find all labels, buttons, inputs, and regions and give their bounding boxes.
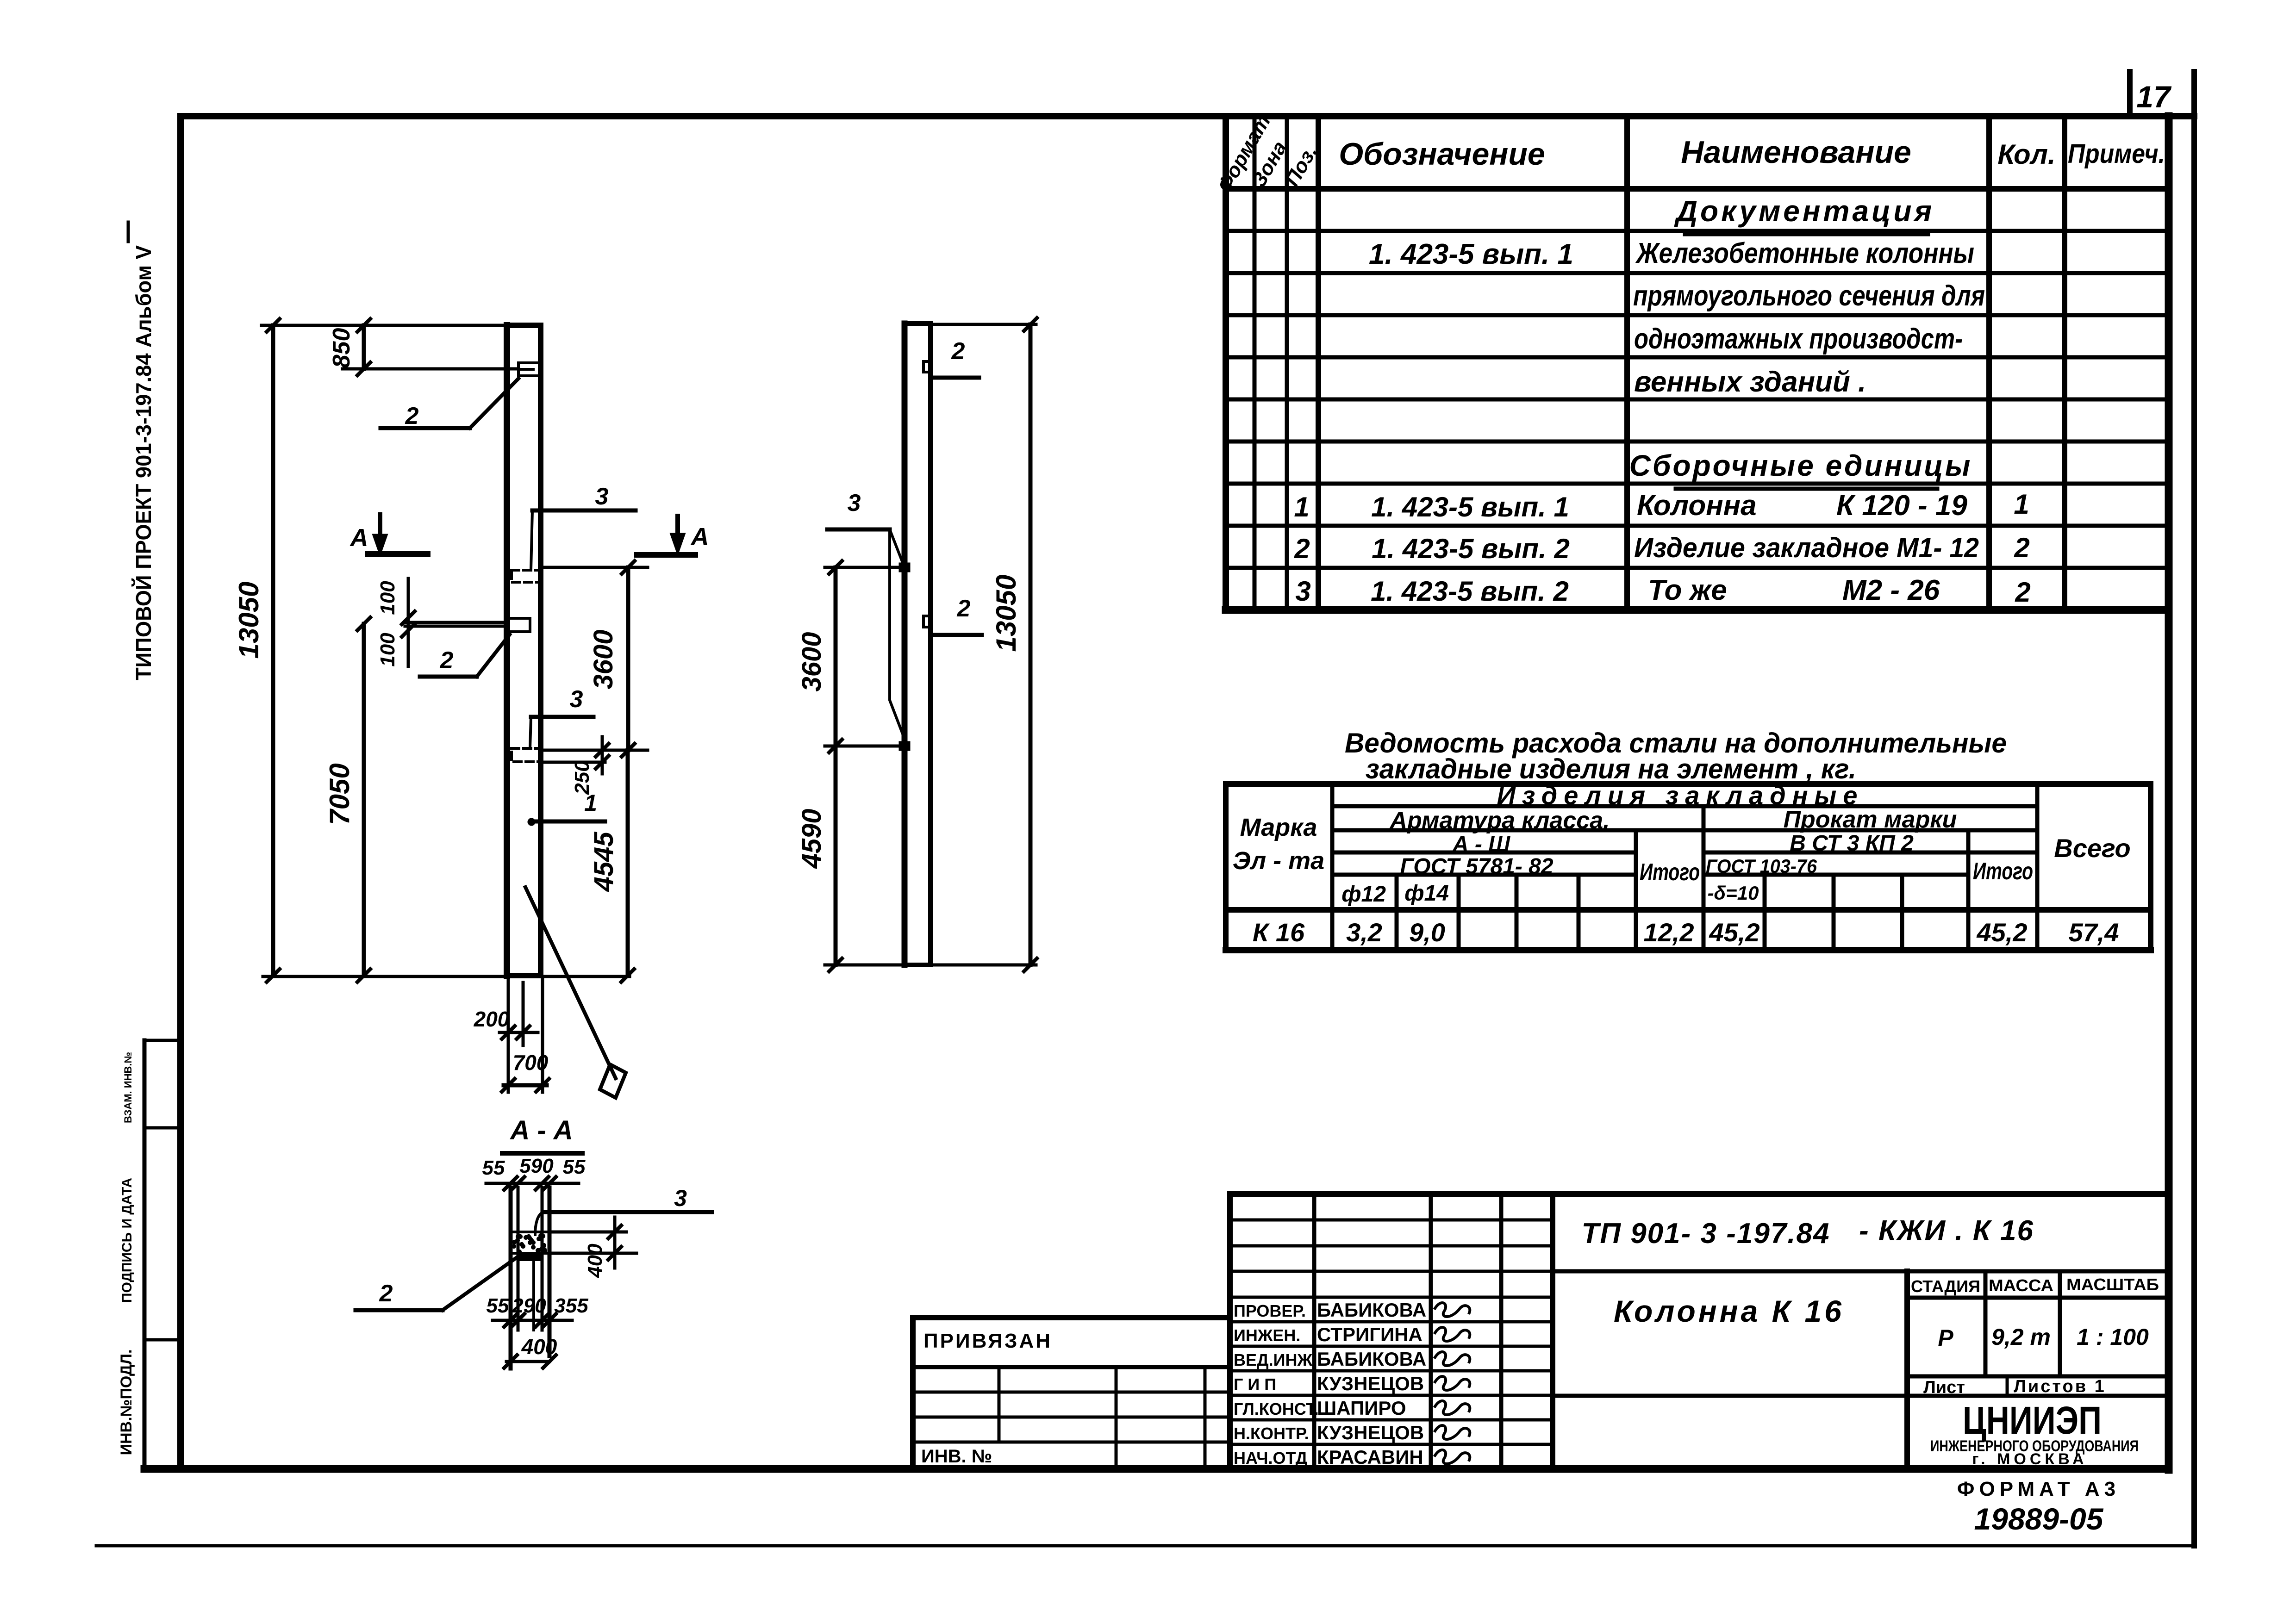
svg-text:Изделие закладное М1- 12: Изделие закладное М1- 12: [1634, 532, 1979, 563]
svg-text:45,2: 45,2: [1709, 918, 1760, 947]
svg-text:Эл - та: Эл - та: [1233, 847, 1324, 875]
svg-text:1. 423-5 вып. 2: 1. 423-5 вып. 2: [1372, 533, 1570, 564]
svg-text:Обозначение: Обозначение: [1339, 137, 1545, 172]
svg-text:Прокат марки: Прокат марки: [1784, 806, 1957, 833]
svg-text:БАБИКОВА: БАБИКОВА: [1317, 1348, 1426, 1370]
svg-text:850: 850: [328, 328, 355, 368]
svg-text:прямоугольного сечения для: прямоугольного сечения для: [1633, 280, 1985, 312]
svg-text:2: 2: [1294, 533, 1310, 564]
svg-text:700: 700: [513, 1051, 549, 1075]
svg-text:1: 1: [1294, 491, 1309, 522]
svg-text:К 120 - 19: К 120 - 19: [1836, 490, 1967, 522]
svg-text:Колонна К 16: Колонна К 16: [1614, 1294, 1844, 1328]
svg-text:13050: 13050: [991, 575, 1022, 652]
svg-text:9,0: 9,0: [1409, 918, 1445, 947]
svg-text:3: 3: [595, 483, 609, 510]
svg-text:2: 2: [440, 647, 454, 674]
svg-text:одноэтажных производст-: одноэтажных производст-: [1634, 323, 1963, 355]
svg-text:ФОРМАТ А3: ФОРМАТ А3: [1957, 1478, 2120, 1500]
svg-text:3600: 3600: [797, 632, 827, 691]
svg-text:590: 590: [519, 1155, 554, 1177]
svg-text:2: 2: [951, 338, 965, 365]
svg-text:Кол.: Кол.: [1997, 139, 2055, 170]
svg-text:Примеч.: Примеч.: [2068, 139, 2165, 169]
svg-text:1: 1: [584, 790, 597, 816]
svg-text:Наименование: Наименование: [1681, 135, 1911, 170]
svg-text:1. 423-5 вып. 1: 1. 423-5 вып. 1: [1369, 238, 1573, 270]
svg-text:В СТ 3 КП 2: В СТ 3 КП 2: [1790, 831, 1914, 856]
svg-text:290: 290: [512, 1294, 546, 1317]
svg-text:Итого: Итого: [1973, 858, 2033, 885]
svg-text:ТИПОВОЙ ПРОЕКТ 901-3-197.84: ТИПОВОЙ ПРОЕКТ 901-3-197.84 Альбом V: [131, 245, 156, 680]
svg-text:СТАДИЯ: СТАДИЯ: [1911, 1277, 1980, 1296]
svg-text:7050: 7050: [324, 763, 355, 825]
svg-text:БАБИКОВА: БАБИКОВА: [1317, 1299, 1426, 1321]
svg-text:Лист: Лист: [1923, 1378, 1965, 1397]
svg-text:СТРИГИНА: СТРИГИНА: [1317, 1324, 1423, 1345]
svg-text:Листов 1: Листов 1: [2014, 1377, 2106, 1396]
svg-text:4590: 4590: [797, 808, 827, 869]
svg-text:закладные изделия на элемен: закладные изделия на элемент , кг.: [1366, 753, 1856, 784]
svg-text:2: 2: [405, 403, 419, 429]
svg-text:К 16: К 16: [1253, 918, 1305, 947]
svg-text:ИНЖЕН.: ИНЖЕН.: [1234, 1326, 1300, 1345]
svg-text:Изделия закладные: Изделия закладные: [1497, 781, 1864, 810]
svg-text:2: 2: [957, 595, 971, 622]
svg-text:А - А: А - А: [509, 1115, 573, 1145]
svg-text:100: 100: [376, 633, 399, 667]
svg-text:КУЗНЕЦОВ: КУЗНЕЦОВ: [1317, 1422, 1424, 1443]
svg-text:МАСШТАБ: МАСШТАБ: [2066, 1275, 2159, 1294]
svg-text:3,2: 3,2: [1346, 918, 1382, 947]
svg-text:Арматура класса.: Арматура класса.: [1389, 807, 1610, 834]
svg-text:ф14: ф14: [1404, 881, 1449, 906]
svg-text:55: 55: [563, 1156, 586, 1178]
svg-text:Сборочные единицы: Сборочные единицы: [1629, 449, 1972, 482]
svg-text:ТП 901- 3 -197.84: ТП 901- 3 -197.84: [1582, 1218, 1830, 1250]
svg-text:57,4: 57,4: [2069, 918, 2119, 947]
svg-text:4545: 4545: [589, 832, 619, 892]
svg-text:ГОСТ 5781- 82: ГОСТ 5781- 82: [1400, 854, 1553, 879]
svg-text:1. 423-5 вып. 1: 1. 423-5 вып. 1: [1371, 491, 1569, 522]
svg-text:3: 3: [570, 686, 583, 713]
svg-text:М2 - 26: М2 - 26: [1842, 574, 1940, 606]
svg-text:ПРИВЯЗАН: ПРИВЯЗАН: [923, 1330, 1052, 1352]
svg-text:А: А: [349, 524, 368, 552]
svg-text:17: 17: [2136, 80, 2172, 114]
svg-text:-δ=10: -δ=10: [1708, 882, 1759, 904]
svg-text:3: 3: [674, 1185, 687, 1211]
svg-text:Железобетонные колонны: Железобетонные колонны: [1635, 237, 1974, 269]
svg-text:3600: 3600: [588, 629, 618, 689]
svg-text:100: 100: [376, 581, 399, 615]
svg-text:355: 355: [554, 1294, 588, 1317]
svg-text:ЦНИИЭП: ЦНИИЭП: [1963, 1399, 2102, 1442]
svg-text:55: 55: [482, 1157, 505, 1179]
svg-text:3: 3: [1295, 576, 1310, 607]
svg-text:ГОСТ 103-76: ГОСТ 103-76: [1706, 855, 1817, 877]
svg-text:А - Ш: А - Ш: [1452, 832, 1510, 857]
svg-text:19889-05: 19889-05: [1974, 1502, 2104, 1536]
svg-text:1. 423-5 вып. 2: 1. 423-5 вып. 2: [1371, 576, 1569, 607]
svg-text:То же: То же: [1648, 574, 1727, 606]
svg-text:45,2: 45,2: [1977, 918, 2028, 947]
svg-text:2: 2: [2014, 532, 2029, 563]
svg-text:Р: Р: [1938, 1325, 1953, 1351]
svg-text:ф12: ф12: [1341, 882, 1386, 907]
svg-text:ИНВ. №: ИНВ. №: [921, 1446, 992, 1467]
svg-text:КРАСАВИН: КРАСАВИН: [1317, 1446, 1423, 1468]
svg-text:12,2: 12,2: [1644, 918, 1694, 947]
svg-text:2: 2: [379, 1280, 393, 1307]
svg-text:Документация: Документация: [1674, 194, 1934, 228]
svg-text:ПОДПИСЬ И ДАТА: ПОДПИСЬ И ДАТА: [119, 1178, 135, 1303]
svg-text:55: 55: [487, 1294, 509, 1317]
svg-text:Н.КОНТР.: Н.КОНТР.: [1234, 1424, 1309, 1443]
svg-text:200: 200: [474, 1007, 510, 1031]
svg-text:1 : 100: 1 : 100: [2077, 1324, 2149, 1350]
svg-text:Итого: Итого: [1640, 859, 1700, 886]
svg-text:А: А: [690, 523, 709, 551]
svg-text:- КЖИ . К 16: - КЖИ . К 16: [1859, 1215, 2034, 1247]
svg-text:МАССА: МАССА: [1989, 1276, 2053, 1295]
svg-text:ВЕД.ИНЖ: ВЕД.ИНЖ: [1234, 1350, 1313, 1369]
svg-text:9,2 т: 9,2 т: [1991, 1324, 2051, 1350]
svg-text:ШАПИРО: ШАПИРО: [1317, 1397, 1406, 1419]
svg-text:400: 400: [584, 1244, 606, 1278]
svg-text:г. МОСКВА: г. МОСКВА: [1972, 1450, 2087, 1468]
svg-text:400: 400: [521, 1335, 557, 1359]
svg-text:Всего: Всего: [2054, 833, 2130, 863]
svg-text:3: 3: [848, 490, 861, 516]
svg-text:Г И П: Г И П: [1234, 1375, 1276, 1394]
svg-text:НАЧ.ОТД: НАЧ.ОТД: [1234, 1449, 1307, 1468]
svg-text:Марка: Марка: [1240, 814, 1317, 841]
svg-text:ГЛ.КОНСТ.: ГЛ.КОНСТ.: [1234, 1399, 1319, 1418]
svg-text:1: 1: [2014, 489, 2029, 520]
svg-text:ИНВ.№ПОДЛ.: ИНВ.№ПОДЛ.: [118, 1349, 135, 1455]
svg-text:ВЗАМ. ИНВ.№: ВЗАМ. ИНВ.№: [122, 1052, 134, 1123]
svg-text:ПРОВЕР.: ПРОВЕР.: [1234, 1301, 1306, 1320]
svg-text:КУЗНЕЦОВ: КУЗНЕЦОВ: [1317, 1373, 1424, 1394]
svg-text:2: 2: [2015, 577, 2030, 608]
svg-text:венных зданий .: венных зданий .: [1634, 366, 1866, 398]
svg-text:Колонна: Колонна: [1637, 490, 1757, 522]
svg-text:13050: 13050: [233, 582, 264, 659]
